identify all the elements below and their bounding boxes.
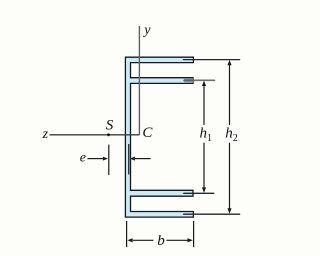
svg-text:b: b	[157, 233, 165, 249]
svg-text:2: 2	[233, 133, 238, 144]
svg-text:C: C	[142, 125, 153, 141]
svg-text:1: 1	[207, 133, 212, 144]
svg-text:e: e	[80, 151, 86, 166]
svg-text:h: h	[225, 126, 233, 142]
svg-text:y: y	[142, 23, 151, 38]
svg-text:S: S	[106, 118, 114, 134]
svg-text:h: h	[200, 126, 208, 142]
svg-text:z: z	[42, 127, 49, 142]
